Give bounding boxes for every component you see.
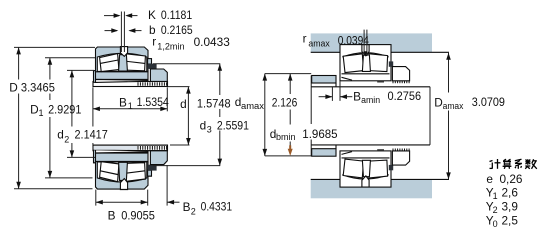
D arrowheads [16,47,21,54]
svg-text:3.0709: 3.0709 [472,95,505,109]
Damax arrowheads [446,53,451,60]
svg-text:1: 1 [39,108,44,118]
svg-text:amin: amin [361,95,380,105]
B arrowheads [96,200,103,205]
svg-text:1.5748: 1.5748 [197,96,231,110]
B2 arrowhead [167,200,174,205]
svg-text:D: D [434,96,443,110]
svg-text:amax: amax [443,101,464,111]
D1 dimension [45,57,95,59]
svg-text:bmin: bmin [276,132,296,142]
sleeve lower half light tint [94,146,138,150]
svg-text:0.2165: 0.2165 [161,23,193,37]
svg-text:e: e [486,172,493,186]
da/db combined dimension line [264,74,266,156]
r amax leader arrowhead [364,51,368,56]
svg-text:3,9: 3,9 [502,200,518,214]
bearing+sleeve upper half [93,47,168,87]
B dimension [95,190,97,206]
svg-text:d: d [200,118,207,132]
B2 dimension [166,165,168,206]
Bamin arrowheads [325,94,332,99]
db min brown half arrow [288,145,293,156]
Damax dimension [448,53,450,180]
svg-text:B: B [183,200,191,214]
label Damax 3.0709 [432,93,507,111]
svg-text:3: 3 [207,124,212,134]
bearing+sleeve lower half (mirrored) [93,145,168,189]
svg-text:2,5: 2,5 [502,213,519,227]
slot leader lines K/b [120,12,122,53]
svg-text:2.1417: 2.1417 [75,128,108,142]
b arrowheads [111,28,118,33]
K arrows [104,15,119,17]
housing upper half [311,33,449,86]
svg-text:0: 0 [493,219,498,229]
char 系 [515,159,522,169]
label d2 2.1417 [54,127,109,144]
svg-text:2,6: 2,6 [502,186,519,200]
table header pseudo CJK 计算系数 [490,159,537,169]
svg-text:B: B [119,96,127,110]
r amax leader lines into bearing [364,30,367,56]
d2 dimension [67,69,94,71]
D1 arrowheads [48,58,53,65]
svg-text:D: D [30,102,39,116]
svg-text:B: B [108,208,116,222]
svg-text:0.4331: 0.4331 [201,199,233,213]
shaft right face [429,87,431,145]
svg-text:3.3465: 3.3465 [21,80,55,94]
svg-text:0.1181: 0.1181 [161,8,192,22]
D dimension [14,46,95,48]
svg-text:K: K [148,8,156,22]
svg-text:0.9055: 0.9055 [121,208,155,222]
svg-text:2.5591: 2.5591 [217,118,249,132]
d2 arrowheads [70,70,75,77]
svg-text:1.5354: 1.5354 [137,95,170,109]
svg-text:D: D [9,80,18,94]
d3 dimension [153,63,220,65]
char 算 [503,159,512,169]
da/db combined arrowheads [263,74,268,81]
svg-text:r: r [303,31,307,45]
char 计 [490,159,501,169]
B1 arrowheads [93,107,100,112]
B1 dimension [92,87,94,144]
svg-text:2.9291: 2.9291 [48,103,81,117]
svg-text:1.9685: 1.9685 [302,127,338,141]
svg-text:1: 1 [128,101,133,111]
svg-text:r: r [152,34,156,48]
svg-text:2.126: 2.126 [272,95,298,109]
svg-text:d: d [57,128,64,142]
d dimension [168,86,190,88]
svg-text:amax: amax [308,39,330,49]
char 数 [525,159,537,169]
arrowheads [16,13,451,204]
svg-text:B: B [353,89,361,103]
label dbmin 1.9685 [269,125,298,142]
da max half arrow line [289,74,291,146]
d3 arrowheads [218,64,223,71]
label D1 2.9291 [28,100,68,117]
shaft left face [310,76,312,157]
label D 3.3465 [6,80,57,94]
b arrows [105,30,118,32]
housing lower half (mirrored) [311,145,449,198]
svg-text:d: d [180,97,187,111]
svg-text:2: 2 [64,135,69,145]
svg-text:0.0394: 0.0394 [338,33,370,47]
Bamin dimension [331,87,333,101]
K arrowheads [114,13,121,18]
svg-text:amax: amax [241,101,265,111]
svg-text:0,26: 0,26 [500,172,523,186]
d arrowheads [186,87,191,94]
svg-text:1,2min: 1,2min [157,41,184,51]
db min extension [265,155,311,157]
svg-text:0.0433: 0.0433 [194,35,231,49]
svg-text:0.2756: 0.2756 [388,89,422,103]
svg-text:2: 2 [191,207,196,217]
da max half arrowhead [288,74,293,81]
